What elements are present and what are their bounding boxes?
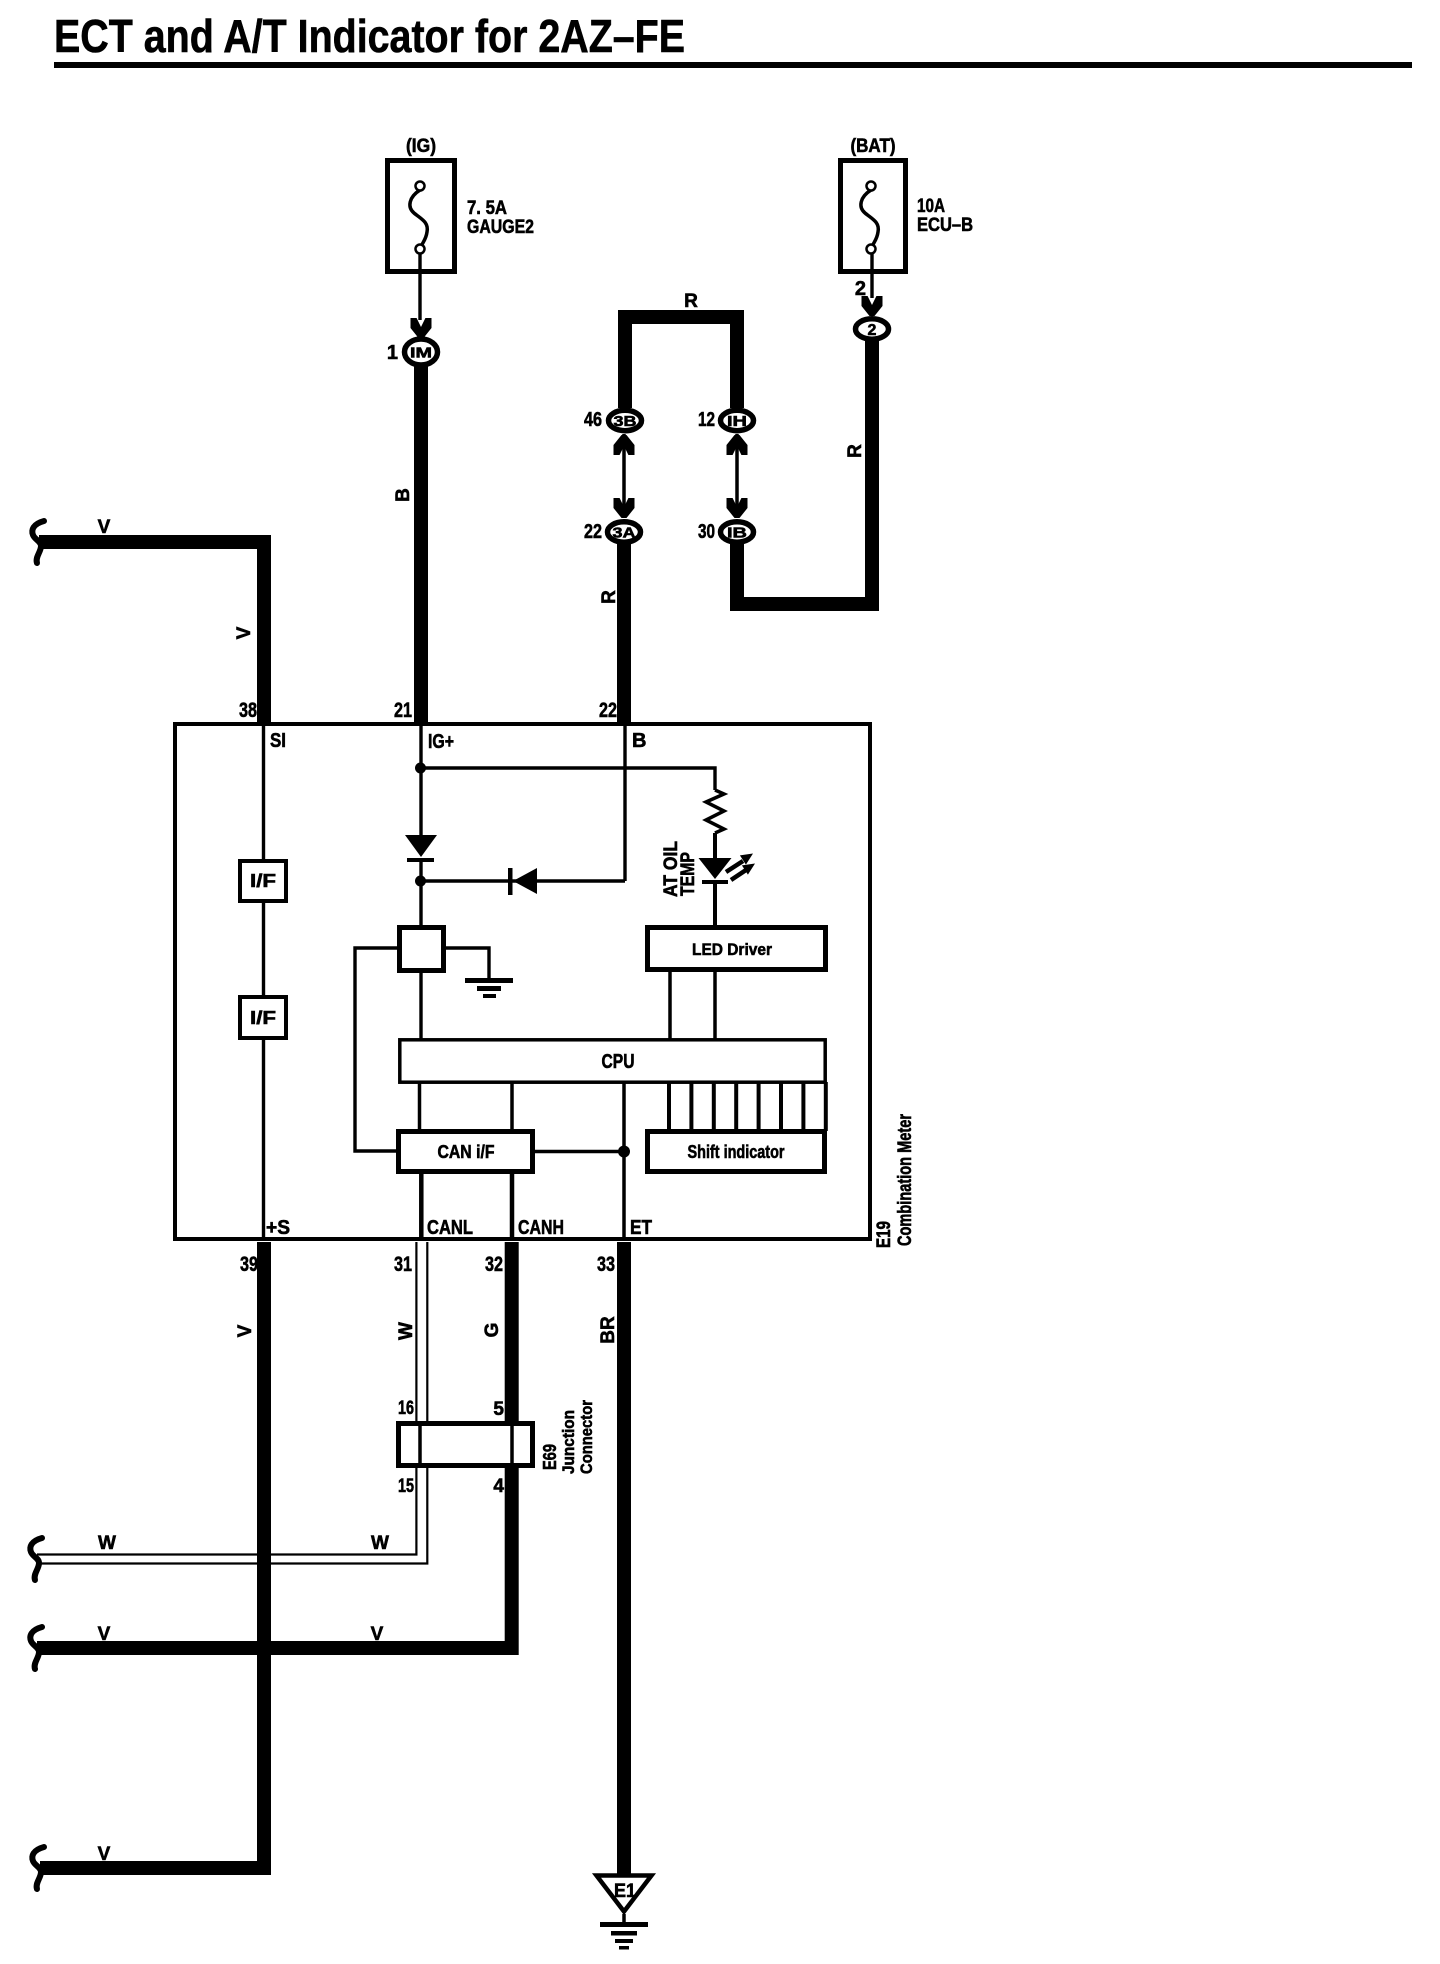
svg-text:E19: E19 <box>874 1221 895 1248</box>
svg-text:Junction: Junction <box>559 1410 578 1474</box>
wire V (to combination meter pin 38) <box>39 542 264 725</box>
svg-text:3B: 3B <box>614 413 637 430</box>
wire B line from pin 22 <box>623 724 626 881</box>
title rule <box>54 62 1412 68</box>
connector 3B, pin 46 <box>584 409 642 431</box>
wire R (3A to combination meter pin 22) <box>617 544 631 725</box>
svg-text:BR: BR <box>598 1316 619 1344</box>
wire fuse ECU-B to connector 2 <box>870 253 873 298</box>
CPU block <box>400 1040 825 1082</box>
node junction dot ET <box>618 1146 630 1158</box>
LED Driver block <box>648 928 826 970</box>
svg-text:CANL: CANL <box>427 1217 473 1239</box>
driver block (unlabeled square) <box>400 928 444 971</box>
connector 3A, pin 22 <box>584 521 641 543</box>
svg-text:B: B <box>632 730 646 752</box>
wire square to CPU <box>419 973 422 1040</box>
fuse GAUGE2 7.5A (IG) <box>388 136 535 272</box>
svg-text:(IG): (IG) <box>406 136 436 157</box>
svg-text:30: 30 <box>698 521 715 543</box>
svg-text:Connector: Connector <box>577 1400 596 1474</box>
connector arrow into 2 <box>862 296 883 316</box>
wire break W <box>30 1538 42 1580</box>
svg-text:V: V <box>234 626 255 639</box>
svg-text:W: W <box>396 1322 417 1340</box>
svg-text:22: 22 <box>584 521 602 543</box>
CAN i/F block <box>399 1132 533 1172</box>
ground (internal) <box>465 978 513 998</box>
connector arrow into 3B <box>614 435 635 455</box>
svg-text:1: 1 <box>387 342 398 364</box>
svg-text:10A: 10A <box>917 196 945 217</box>
svg-text:33: 33 <box>597 1253 615 1276</box>
svg-text:R: R <box>599 590 620 604</box>
svg-text:LED Driver: LED Driver <box>692 940 772 959</box>
svg-text:ET: ET <box>630 1217 652 1239</box>
svg-text:16: 16 <box>398 1398 414 1419</box>
svg-text:5: 5 <box>493 1399 504 1420</box>
svg-text:I/F: I/F <box>250 871 276 891</box>
wire G (pin 32 to junction connector) <box>505 1242 519 1423</box>
svg-text:B: B <box>393 488 414 502</box>
svg-text:IG+: IG+ <box>428 731 454 753</box>
svg-text:31: 31 <box>394 1253 412 1276</box>
node junction dot IG+ branch <box>415 763 426 774</box>
connector 2 <box>856 319 889 339</box>
I/F block 2 <box>240 997 286 1038</box>
svg-text:22: 22 <box>599 699 617 722</box>
wire W (pin 31, hollow white wire) <box>37 1242 427 1564</box>
wire junction 3B to 3A <box>622 434 626 518</box>
svg-text:SI: SI <box>270 730 286 752</box>
ground E1 <box>597 1876 652 1950</box>
svg-text:39: 39 <box>240 1253 258 1276</box>
wire R (connector 3B to connector IH) <box>625 317 737 408</box>
svg-text:GAUGE2: GAUGE2 <box>467 217 534 238</box>
svg-text:Combination Meter: Combination Meter <box>895 1114 916 1246</box>
svg-text:V: V <box>371 1624 384 1645</box>
diode D2 (B line to IG+ node) <box>508 868 537 895</box>
wire SI (pin 38 to pin 39) <box>262 724 265 1240</box>
svg-text:+S: +S <box>266 1217 290 1239</box>
svg-text:TEMP: TEMP <box>678 852 699 896</box>
svg-text:4: 4 <box>493 1476 504 1497</box>
svg-text:I/F: I/F <box>250 1008 276 1028</box>
svg-text:ECT and A/T Indicator for 2AZ–: ECT and A/T Indicator for 2AZ–FE <box>54 10 685 62</box>
svg-text:V: V <box>98 1844 111 1865</box>
connector arrow into IH <box>727 435 748 455</box>
combination meter E19 box <box>175 724 870 1239</box>
svg-text:R: R <box>845 444 866 458</box>
connector arrow into 3A <box>614 498 635 518</box>
svg-text:3A: 3A <box>613 524 636 541</box>
wire square to internal ground <box>446 948 489 979</box>
svg-text:E69: E69 <box>540 1444 560 1470</box>
svg-text:15: 15 <box>398 1476 414 1497</box>
Shift Indicator block <box>648 1132 825 1172</box>
connector IB, pin 30 <box>698 521 754 543</box>
wire LED driver to CPU lines <box>668 972 672 1040</box>
svg-text:CANH: CANH <box>518 1217 564 1239</box>
resistor (LED series) <box>706 790 724 833</box>
wire junction IH to IB <box>735 434 739 518</box>
wire ET line (CPU to pin 33) <box>622 1082 626 1240</box>
svg-text:IB: IB <box>727 524 747 541</box>
svg-text:Shift indicator: Shift indicator <box>688 1142 785 1162</box>
svg-text:V: V <box>98 1624 111 1645</box>
svg-text:W: W <box>371 1533 389 1554</box>
wire fuse GAUGE2 to connector IM <box>418 253 421 320</box>
svg-text:CAN i/F: CAN i/F <box>438 1142 495 1162</box>
svg-text:V: V <box>235 1324 256 1337</box>
wire CPU to CAN i/F lines <box>418 1082 422 1131</box>
fuse ECU-B 10A (BAT) <box>841 136 974 272</box>
svg-text:E1: E1 <box>614 1881 636 1902</box>
diode D1 on IG+ line <box>405 835 437 862</box>
connector arrow into IM <box>411 318 432 338</box>
wire IG+ line <box>419 724 422 836</box>
wire resistor to LED <box>713 833 717 858</box>
svg-text:G: G <box>482 1323 503 1338</box>
LED AT OIL TEMP indicator <box>699 854 756 885</box>
wire square to CAN i/F <box>355 948 398 1151</box>
svg-text:12: 12 <box>698 409 715 431</box>
connector arrow into IB <box>727 498 748 518</box>
svg-text:38: 38 <box>239 699 257 722</box>
svg-text:IM: IM <box>410 344 432 361</box>
wire B (IM to combination meter pin 21) <box>414 366 428 725</box>
wire branch to resistor <box>421 768 715 790</box>
wire V (junction connector pin 4 down and left) <box>37 1467 512 1648</box>
svg-text:7. 5A: 7. 5A <box>467 198 507 219</box>
svg-text:V: V <box>98 517 111 538</box>
wire R (connector 2 to connector IB) <box>737 341 872 604</box>
svg-text:2: 2 <box>868 322 877 339</box>
wire CAN i/F to ET node <box>535 1150 624 1154</box>
svg-text:IH: IH <box>727 413 747 430</box>
junction connector E69 <box>399 1423 533 1466</box>
wire LED to LED driver <box>713 884 717 927</box>
wire BR (pin 33 to ground E1) <box>617 1242 631 1874</box>
connector IM, pin 1 <box>387 339 438 365</box>
wire break V <box>32 1847 44 1889</box>
node junction dot diode output <box>415 876 426 887</box>
svg-text:32: 32 <box>485 1253 503 1276</box>
wire break V <box>30 1627 42 1669</box>
svg-text:(BAT): (BAT) <box>851 136 896 157</box>
svg-text:CPU: CPU <box>602 1051 635 1073</box>
svg-text:21: 21 <box>394 699 412 722</box>
I/F block 1 <box>240 861 286 901</box>
svg-text:ECU–B: ECU–B <box>917 215 973 236</box>
wire V (pin 39) <box>40 1242 264 1868</box>
svg-text:R: R <box>684 291 698 312</box>
wire CANL (CAN i/F to pin 31) <box>419 1172 424 1240</box>
svg-text:W: W <box>98 1533 116 1554</box>
wire CANH (CAN i/F to pin 32) <box>510 1172 515 1240</box>
bus CPU to shift indicator <box>669 1082 826 1131</box>
svg-text:46: 46 <box>584 409 602 431</box>
connector IH, pin 12 <box>698 409 754 431</box>
wire break <box>32 521 44 563</box>
wire diode row <box>421 879 625 882</box>
